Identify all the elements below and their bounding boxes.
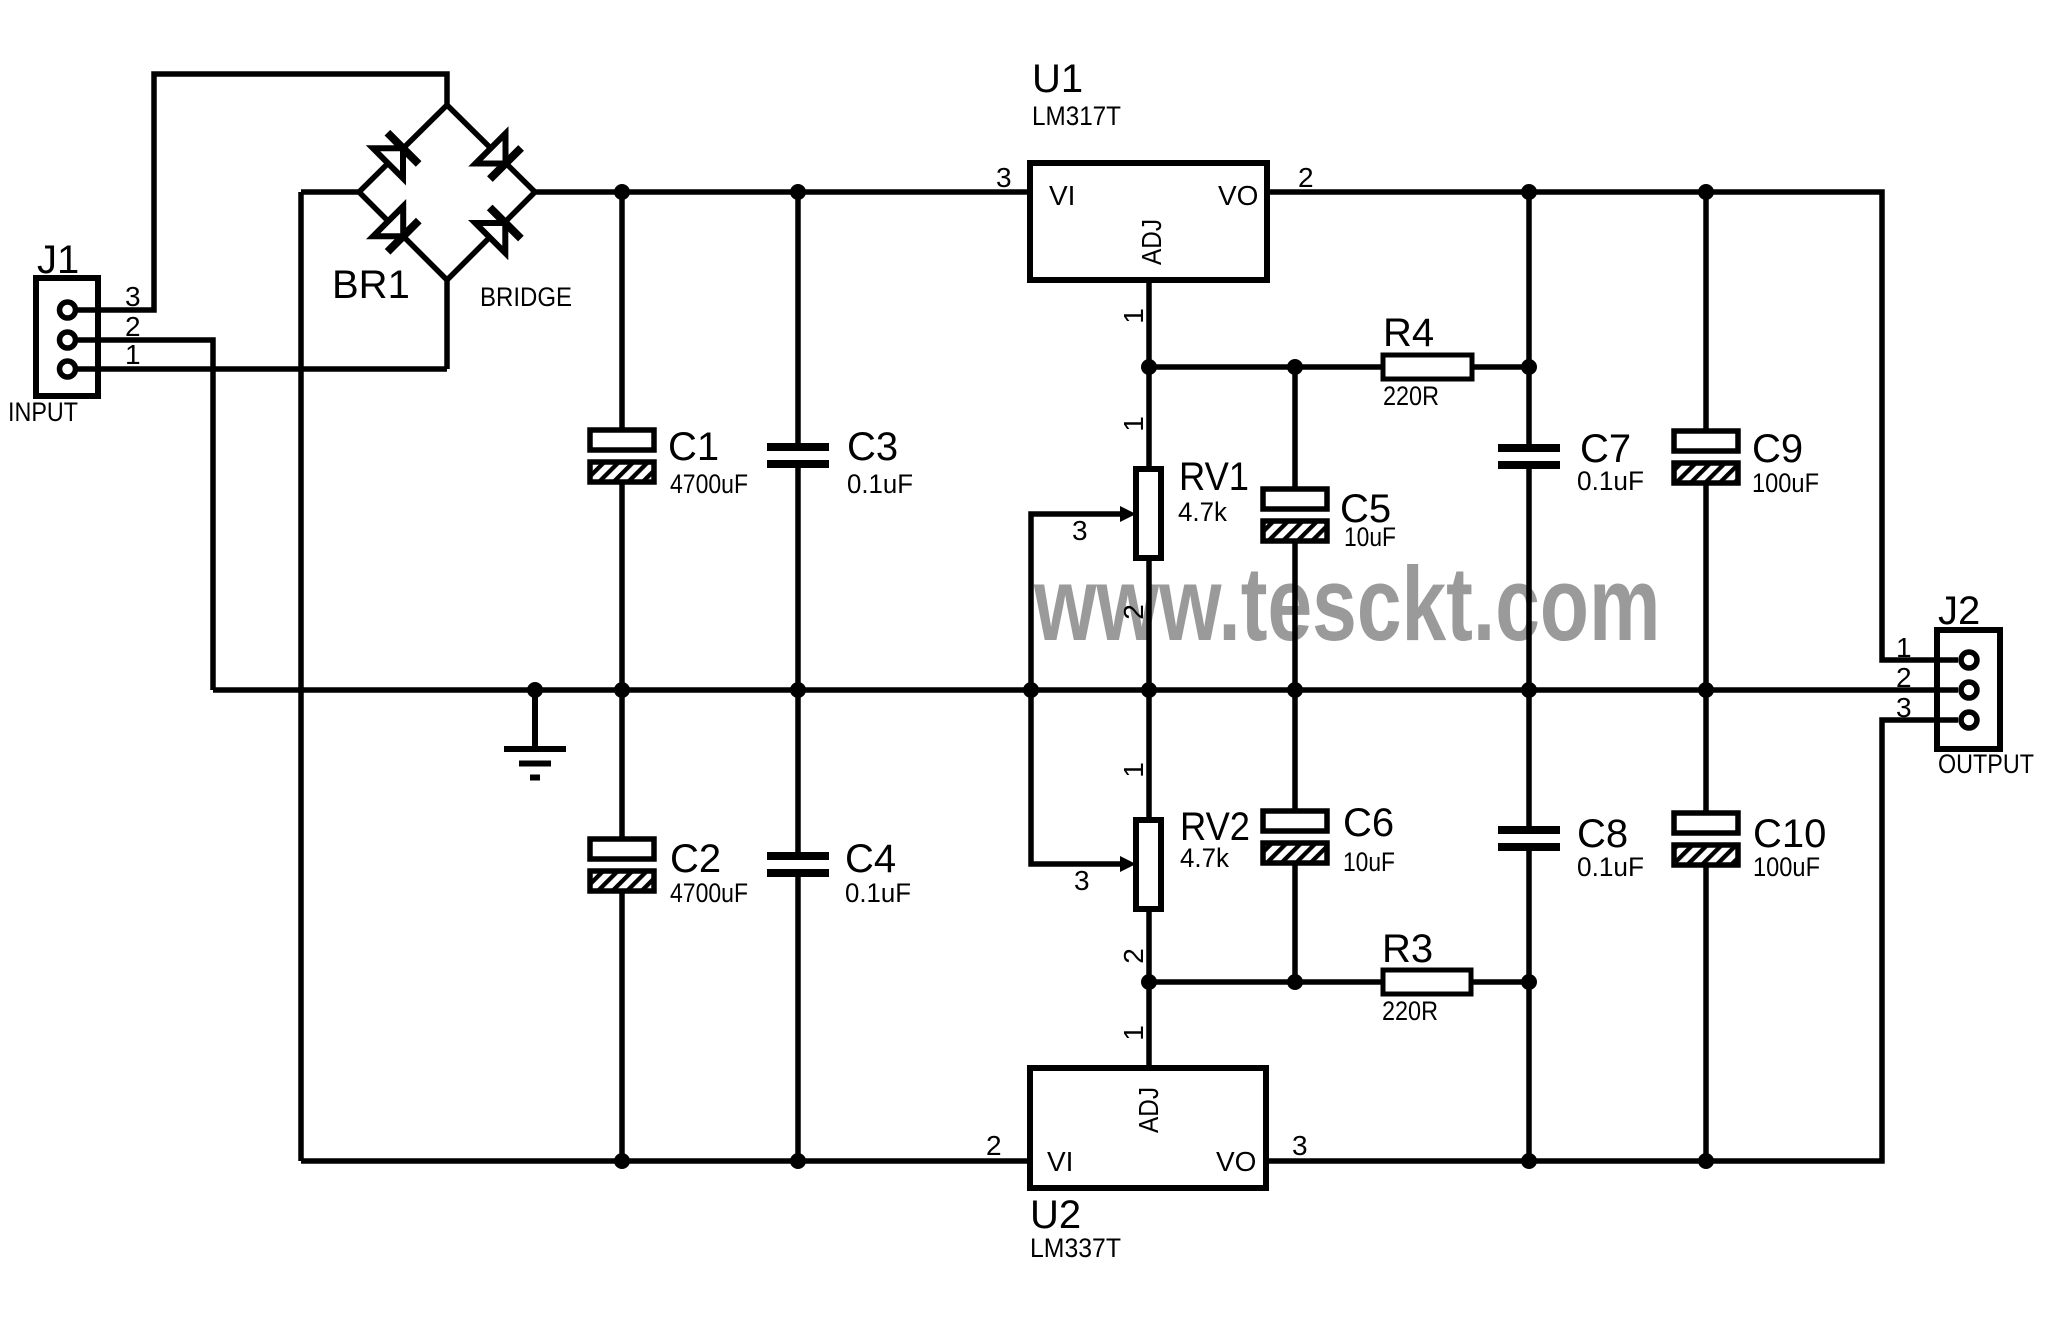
svg-text:4700uF: 4700uF [670,878,748,908]
svg-text:1: 1 [125,339,141,370]
capacitor C1 (electrolytic) [590,430,654,482]
svg-text:100uF: 100uF [1752,468,1819,498]
svg-text:4700uF: 4700uF [670,469,748,499]
wire C1 bottom lead [619,482,625,690]
svg-text:4.7k: 4.7k [1180,843,1229,873]
svg-text:2: 2 [986,1130,1002,1161]
wire C7 bottom lead [1526,469,1532,690]
svg-text:C8: C8 [1577,812,1628,856]
wire R3 right lead [1471,979,1529,985]
svg-text:www.tesckt.com: www.tesckt.com [1033,545,1660,663]
svg-text:U2: U2 [1030,1193,1081,1237]
wire C9 bottom lead [1703,483,1709,690]
wire RV2 bottom stem [1146,909,1152,982]
junction dots R3 row [1141,974,1537,990]
svg-text:C6: C6 [1343,801,1394,845]
wire U2 ADJ stem [1146,982,1152,1068]
svg-text:VO: VO [1218,180,1258,211]
wire C10 bottom lead [1703,865,1709,1161]
wire U1 VO rail to J2 pin1 [1267,192,1958,660]
wire bottom rail to U2 VI [301,1158,1030,1164]
svg-text:U1: U1 [1032,57,1083,101]
capacitor C9 (electrolytic) [1674,431,1738,483]
svg-text:1: 1 [1118,762,1149,778]
wire RV1 top stem [1146,367,1152,469]
wire C3 bottom lead [795,468,801,690]
connector J1 [36,278,98,396]
wire C5 top lead [1292,367,1298,489]
diode D-BL of BR1 [373,206,419,252]
wire U1 ADJ stem [1146,280,1152,367]
svg-text:ADJ: ADJ [1136,219,1167,265]
wire C6 top lead [1292,690,1298,811]
svg-text:10uF: 10uF [1343,847,1395,877]
svg-text:C10: C10 [1753,812,1826,856]
svg-text:1: 1 [1118,1025,1149,1041]
potentiometer RV1 body [1136,469,1161,558]
svg-text:0.1uF: 0.1uF [1577,466,1644,496]
wire R4 right lead [1472,364,1529,370]
svg-text:VI: VI [1047,1146,1073,1177]
svg-text:C1: C1 [668,425,719,469]
svg-text:3: 3 [1072,515,1088,546]
svg-text:3: 3 [1074,865,1090,896]
svg-text:2: 2 [1118,948,1149,964]
svg-text:2: 2 [1896,662,1912,693]
junction dots top rail [614,184,1714,200]
wire bridge bottom corner down [444,280,450,369]
svg-text:10uF: 10uF [1344,522,1396,552]
wire top rail bridge to U1 VI [535,189,1030,195]
potentiometer RV2 wiper arrow [1120,856,1136,872]
svg-text:2: 2 [1298,162,1314,193]
wire C2 top lead [619,690,625,839]
svg-text:2: 2 [1118,604,1149,620]
wire bridge left corner to left vertical [301,189,359,195]
wire RV1 bottom stem [1146,558,1152,690]
svg-text:OUTPUT: OUTPUT [1938,749,2034,779]
svg-text:BR1: BR1 [332,263,410,307]
wire C10 top lead [1703,690,1709,812]
svg-text:J2: J2 [1938,589,1980,633]
svg-text:100uF: 100uF [1753,852,1820,882]
svg-text:J1: J1 [37,238,79,282]
wire C1 top lead [619,192,625,430]
svg-text:LM337T: LM337T [1030,1233,1121,1263]
wire C5 bottom lead [1292,541,1298,690]
wire RV2 top stem [1146,690,1152,820]
svg-text:1: 1 [1118,416,1149,432]
svg-text:RV1: RV1 [1179,455,1249,499]
svg-text:3: 3 [1896,692,1912,723]
svg-text:1: 1 [1896,632,1912,663]
wire RV1 wiper [1031,514,1122,690]
capacitor C4 (ceramic) [767,856,829,873]
wire R3 row to U2 ADJ junction [1149,979,1383,985]
capacitor C7 (ceramic) [1498,448,1560,465]
wire RV2 wiper [1031,690,1122,864]
wire C9 top lead [1703,192,1709,431]
wire C3 top lead [795,192,801,443]
wire J1 pin3 to top corner [78,74,447,310]
svg-text:VO: VO [1216,1146,1256,1177]
wire J1 pin1 to bridge bottom [78,366,447,372]
svg-text:2: 2 [125,311,141,342]
regulator U2 box [1030,1068,1266,1188]
capacitor C3 (ceramic) [767,447,829,464]
svg-text:C7: C7 [1580,427,1631,471]
ground symbol [504,690,566,778]
svg-text:220R: 220R [1383,381,1439,411]
svg-text:INPUT: INPUT [8,397,78,427]
wire J1 pin2 down to mid rail [78,340,213,690]
svg-text:3: 3 [125,281,141,312]
wire C6 bottom lead [1292,863,1298,982]
regulator U1 box [1030,163,1267,280]
junction dots ADJ row [1141,359,1537,375]
wire U1 ADJ row to R4 [1149,364,1383,370]
svg-text:C9: C9 [1752,427,1803,471]
wire C7 top lead [1526,192,1532,444]
wire C2 bottom lead [619,891,625,1161]
capacitor C2 (electrolytic) [590,839,654,891]
resistor R4 [1383,355,1472,379]
capacitor C10 (electrolytic) [1674,813,1738,865]
svg-text:1: 1 [1118,308,1149,324]
svg-text:4.7k: 4.7k [1178,497,1227,527]
svg-text:3: 3 [1292,1130,1308,1161]
svg-text:LM317T: LM317T [1032,101,1121,131]
wire left vertical down to bottom rail [298,192,304,1161]
svg-text:C2: C2 [670,837,721,881]
junction dots mid rail [527,682,1714,698]
wire C4 bottom lead [795,877,801,1161]
svg-text:R4: R4 [1383,311,1434,355]
svg-text:220R: 220R [1382,996,1438,1026]
capacitor C6 (electrolytic) [1263,811,1327,863]
connector J2 [1937,630,2000,749]
wire C8 top lead [1526,690,1532,826]
resistor R3 [1383,970,1471,994]
wire mid rail [213,687,1958,693]
wire C8 bottom lead [1526,851,1532,1161]
svg-text:C3: C3 [847,425,898,469]
svg-text:0.1uF: 0.1uF [1577,852,1644,882]
diode D-TR of BR1 [476,134,522,180]
capacitor C8 (ceramic) [1498,830,1560,847]
svg-text:C4: C4 [845,837,896,881]
diode D-TL of BR1 [373,133,419,179]
diode D-BR of BR1 [475,207,521,253]
svg-text:0.1uF: 0.1uF [847,469,913,499]
svg-text:R3: R3 [1382,927,1433,971]
svg-text:BRIDGE: BRIDGE [480,282,572,312]
capacitor C5 (electrolytic) [1263,489,1327,541]
wire U2 VO to J2 pin3 [1266,720,1958,1161]
svg-text:3: 3 [996,162,1012,193]
bridge BR1 diamond [359,105,535,280]
svg-text:0.1uF: 0.1uF [845,878,911,908]
svg-text:ADJ: ADJ [1133,1087,1164,1133]
potentiometer RV1 wiper arrow [1120,506,1136,522]
potentiometer RV2 body [1136,820,1161,909]
junction dots bottom rail [614,1153,1714,1169]
wire C4 top lead [795,690,801,852]
svg-text:VI: VI [1049,180,1075,211]
